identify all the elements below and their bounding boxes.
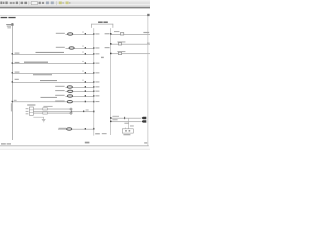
connector block J1 (29, 107, 33, 115)
terminal stud at bus top (11, 23, 13, 25)
wire W8 label (55, 86, 64, 87)
wire W2 label (24, 62, 48, 63)
wire W20 (J1 pin3, y113) (33, 112, 70, 115)
wire W9 (to TB1, y91) (66, 90, 94, 93)
terminal lugs on TB1 (93, 33, 94, 129)
wire W15 (TB2 right, y53) (111, 52, 150, 55)
wire W9 label (55, 90, 64, 91)
wire W3 (bus to TB1, y73) (12, 72, 94, 75)
wire W14 (TB2 right, y44) (111, 43, 150, 46)
header rule (0, 14, 149, 17)
junction dot W13-TB2 (110, 33, 112, 35)
wire W2 (bus to TB1, y63) (12, 62, 94, 65)
diode D1 on W19 (43, 108, 48, 110)
wire W1 (bus to TB1, y54) (12, 53, 94, 56)
wire W10 long name (41, 97, 58, 98)
pin labels left of TB2 (101, 33, 110, 58)
connector P10 inline on W10 (67, 95, 72, 97)
wire W17 sub label (124, 123, 129, 124)
wire W5 number at bus (14, 100, 17, 101)
fuse F9 on W10 (85, 95, 86, 97)
page border bottom (0, 145, 149, 148)
fuse F12 on W11 (85, 128, 86, 130)
fuse F5 on W3 (85, 72, 86, 74)
open terminal circle on W19 (70, 108, 72, 110)
wire W15 label (117, 51, 125, 52)
fuse F10 on W5 (85, 101, 86, 103)
fuse F6 on W4 (85, 81, 86, 83)
wire W5 (bus to TB1, y101) (12, 100, 94, 103)
junction dot W15-TB2 (110, 53, 112, 55)
node BAT+ label (6, 24, 11, 28)
off-page arrow A2 on W17 (142, 120, 147, 122)
splice tick on W16 (123, 117, 126, 119)
breaker CB1 on W13 (120, 33, 123, 35)
splice tick on W12 (70, 111, 73, 113)
ground (42, 119, 46, 122)
junction dot W3-bus (12, 72, 13, 73)
bracket header label (98, 22, 108, 23)
bus net label (vertical) (10, 103, 13, 111)
fuse F4 on W2 (85, 62, 86, 64)
wire W1 label (36, 52, 65, 53)
diode D2 on W20 (43, 112, 48, 114)
wire W16 (TB2 right, y118) (111, 117, 141, 120)
wire W16 label (112, 116, 119, 117)
connector J1 label (27, 104, 35, 105)
off-page arrow A1 on W16 (142, 117, 147, 119)
wire W12 (J1 pin2 to TB1, y111) (33, 110, 93, 113)
J1 pin number texts (26, 108, 29, 114)
wire W10 (to TB1, y96) (66, 95, 94, 98)
relay K1 (122, 128, 133, 134)
footer center text (85, 142, 90, 144)
wire W7 label (56, 47, 65, 48)
wire W17 (TB2 right, y121.5) (111, 120, 141, 123)
open terminal circle on W20 (70, 112, 72, 114)
footer left text (1, 143, 11, 144)
connector P9 inline on W9 (68, 90, 73, 92)
wire W11 label (59, 128, 67, 129)
wire W7 (to TB1, y48) (66, 47, 94, 50)
wire W11 (to TB1, y129) (58, 128, 94, 131)
wire W14 label (117, 41, 125, 42)
fuse F2 on W7 (85, 47, 86, 49)
wire W13 label (114, 31, 119, 32)
wire W1 number at bus (15, 53, 20, 54)
relay K1 label (123, 134, 130, 135)
fuse F8 on W9 (85, 90, 86, 92)
terminal number texts right of TB1 (95, 33, 106, 134)
viewer toolbar (0, 0, 150, 8)
junction dot W14-TB2 (110, 43, 112, 45)
wire W13 end text (143, 32, 149, 33)
terminal strip TB1 (vertical) (93, 28, 96, 135)
fuse F11 on W12 (83, 111, 84, 113)
breaker CB3 on W15 (118, 52, 121, 54)
title "Schematic, Electrical" (1, 17, 16, 18)
fuse F7 on W8 (85, 86, 86, 88)
annotation mark at rule end (147, 14, 149, 16)
wire W21 (J1 pin4 ground stub) (33, 116, 43, 119)
wire W10 label (55, 95, 64, 96)
diode D1 label (43, 106, 52, 107)
wire W18 (drop from W16 to relay K1) (127, 118, 130, 129)
wire W6 label (56, 33, 65, 34)
wire W6 (to TB1, y34) (66, 33, 94, 36)
junction dot W16-TB2 (110, 117, 112, 119)
wire W4 number at bus (15, 79, 19, 80)
junction dot W2-bus (12, 62, 13, 63)
pin number texts above fuses (82, 32, 83, 81)
junction dot W5-bus (12, 101, 13, 102)
wire W13 (TB2 right, y34) (111, 33, 150, 36)
wire W5 label (55, 101, 64, 102)
connector P7 inline on W7 (69, 47, 74, 49)
wire W18 label (130, 125, 134, 126)
wire W4 label (40, 80, 57, 81)
bracket over terminal strips (91, 24, 113, 28)
connector P5 inline on W5 (67, 101, 72, 103)
wire W17 label (112, 119, 117, 120)
wire W12 label (86, 110, 89, 111)
fuse F3 on W1 (85, 53, 86, 55)
wire W19 (J1 pin1, y109) (33, 108, 70, 111)
wire W8 (to TB1, y87) (66, 86, 94, 89)
wire W2 number at bus (15, 62, 20, 63)
wire W14 end text (147, 43, 150, 44)
breaker CB2 on W14 (118, 43, 121, 45)
wire W3 number at bus (15, 72, 20, 73)
power bus B+ (vertical) (11, 24, 14, 140)
connector P11 inline on W11 (67, 128, 72, 130)
junction dot W17-TB2 (110, 121, 112, 123)
wire W3 label (33, 74, 52, 75)
junction dot W1-bus (12, 53, 13, 54)
page border right (147, 16, 150, 146)
footer right text (144, 142, 147, 143)
fuse F1 on W6 (85, 33, 86, 35)
connector P6 inline on W6 (68, 33, 73, 35)
terminal strip TB2 (vertical) (109, 28, 112, 135)
junction dot W4-bus (12, 81, 13, 82)
wire W4 (bus to TB1, y82) (12, 81, 94, 84)
connector P8 inline on W8 (67, 86, 72, 88)
